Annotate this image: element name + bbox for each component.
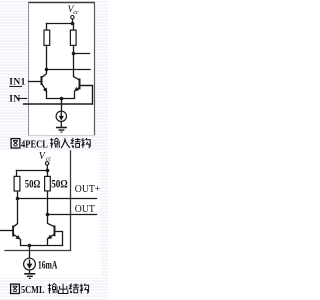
wire Q3 base from image edge — [0, 230, 13, 232]
svg-text:50Ω: 50Ω — [51, 177, 68, 191]
wire node B down to Q2 collector — [73, 54, 75, 77]
resistor R right — [70, 30, 76, 45]
background stripes — [0, 0, 108, 300]
caption figure 4 — [11, 138, 90, 150]
wire node B2 down to Q4 collector — [47, 215, 49, 224]
wire node B output stub — [74, 53, 90, 55]
junction dot node B2 — [46, 213, 50, 217]
wire node A2 down to Q3 collector — [17, 199, 19, 224]
transistor Q4 (right NPN, mirrored) — [48, 223, 55, 245]
wire IN- routing under to Q2 base — [24, 86, 93, 105]
svg-text:50Ω: 50Ω — [25, 177, 41, 191]
wire R right bottom to node B — [73, 45, 75, 53]
resistor 50ohm right — [45, 176, 51, 191]
wire node A output stub — [47, 69, 91, 71]
wire Q4 base loop right and down — [55, 232, 63, 246]
resistor 50ohm left — [14, 176, 20, 191]
wire top rail — [47, 23, 73, 25]
wire rail to R left top — [46, 24, 48, 31]
figure 1 frame box — [28, 2, 95, 136]
svg-text:IN: IN — [9, 94, 20, 104]
wire R left bottom to node A — [46, 45, 48, 69]
svg-text:OUT+: OUT+ — [75, 183, 101, 195]
junction dot node A — [45, 68, 49, 72]
caption figure 5 — [11, 284, 89, 296]
junction dot node B — [72, 52, 76, 56]
transistor Q3 (left NPN) — [13, 224, 20, 246]
wire top rail fig2 — [17, 170, 48, 172]
current source I1 — [56, 111, 66, 121]
junction dot node A2 — [16, 197, 20, 201]
svg-text:5CML: 5CML — [21, 285, 45, 296]
wire rail to R1 top — [16, 171, 18, 177]
wire Vcc terminal to rail — [72, 19, 74, 24]
svg-text:cc: cc — [46, 156, 52, 162]
svg-text:4PECL: 4PECL — [21, 139, 48, 150]
junction dot emitter rail fig2 — [28, 244, 32, 248]
resistor R left — [44, 30, 50, 45]
Vcc terminal circle — [71, 16, 74, 19]
figure 2 frame (right + bottom) — [4, 150, 70, 250]
wire Vcc terminal to rail fig2 — [46, 165, 48, 170]
wire I2 to ground — [29, 270, 31, 273]
transistor Q2 (right NPN, mirrored) — [74, 77, 80, 99]
junction dot emitter rail — [60, 97, 64, 101]
wire common emitter rail — [47, 98, 75, 100]
svg-text:16mA: 16mA — [38, 259, 58, 271]
wire emitter rail fig2 — [21, 245, 63, 247]
wire OUT+ — [18, 198, 97, 200]
Vcc terminal circle fig2 — [45, 162, 48, 165]
ground symbol fig2 — [24, 274, 35, 279]
svg-text:IN1: IN1 — [9, 77, 26, 87]
wire rail to R right top — [73, 24, 75, 31]
wire IN- label dash — [18, 98, 26, 100]
wire rail to R2 top — [47, 171, 49, 177]
svg-text:cc: cc — [73, 10, 79, 16]
IN1 underline — [9, 86, 22, 88]
junction dot rail/Vcc fig2 — [46, 169, 50, 173]
ground symbol fig1 — [56, 128, 67, 133]
wire emitter rail to current source — [61, 99, 63, 112]
wire rail to current source I2 — [29, 246, 31, 259]
svg-text:OUT: OUT — [75, 203, 95, 215]
wire IN1 to Q1 base — [29, 81, 42, 83]
white area of figure 2 — [0, 151, 100, 251]
transistor Q1 (left NPN) — [42, 70, 47, 99]
wire OUT — [48, 214, 97, 216]
wire current source to ground — [60, 121, 62, 127]
wire R2 bottom through to node B2 — [47, 191, 49, 215]
wire R1 bottom to node A2 — [17, 191, 19, 199]
junction dot Vcc rail — [71, 22, 75, 26]
current source I2 — [24, 258, 36, 270]
